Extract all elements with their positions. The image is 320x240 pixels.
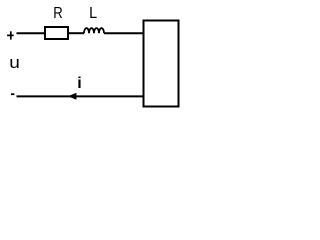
svg-text:i: i xyxy=(77,75,81,92)
svg-text:u: u xyxy=(9,53,20,72)
svg-text:R: R xyxy=(53,5,62,22)
svg-text:L: L xyxy=(89,4,97,22)
